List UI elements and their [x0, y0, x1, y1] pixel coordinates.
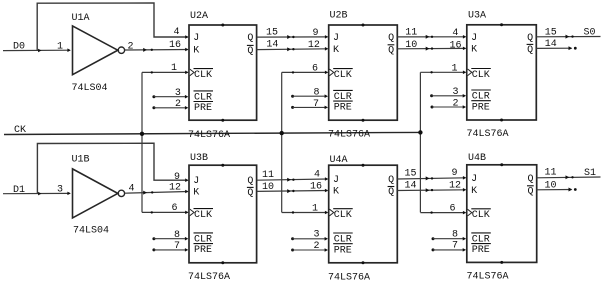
svg-text:Q: Q: [528, 174, 534, 185]
svg-text:12: 12: [169, 182, 181, 193]
U2A bottom-edge mark: [221, 119, 224, 122]
U4B top-edge mark: [500, 163, 503, 166]
svg-text:8: 8: [174, 230, 180, 241]
svg-text:10: 10: [262, 182, 274, 193]
wire CLK feed column 3 vertical: [419, 72, 421, 212]
wire U2A Q to U2B J: [257, 36, 328, 38]
svg-text:9: 9: [174, 172, 180, 183]
svg-text:K: K: [471, 186, 477, 197]
svg-text:S0: S0: [584, 28, 596, 39]
U2B top-edge mark: [362, 24, 365, 27]
svg-text:Q: Q: [247, 188, 253, 199]
svg-text:CLK: CLK: [334, 70, 352, 81]
inverter U1B: [73, 169, 118, 218]
wire U4A CLR stub: [291, 237, 328, 241]
svg-text:PRE: PRE: [472, 245, 490, 256]
svg-text:Q: Q: [528, 186, 534, 197]
wire U2B CLK: [282, 71, 328, 73]
svg-text:11: 11: [262, 170, 274, 181]
JK flip-flop U4B body: [467, 165, 537, 263]
svg-text:K: K: [193, 45, 199, 56]
svg-text:PRE: PRE: [472, 102, 490, 113]
wire D0 bypass to U2A J: [37, 3, 187, 51]
JK flip-flop U2A body: [189, 25, 257, 120]
svg-text:74LS76A: 74LS76A: [188, 130, 230, 141]
svg-text:PRE: PRE: [194, 245, 212, 256]
svg-text:K: K: [333, 45, 339, 56]
svg-text:74LS76A: 74LS76A: [328, 130, 370, 141]
svg-text:J: J: [193, 33, 199, 44]
svg-text:15: 15: [545, 27, 557, 38]
wire U4B PRE stub: [432, 248, 467, 252]
U4B clock wedge: [468, 209, 472, 216]
svg-text:74LS04: 74LS04: [72, 83, 108, 94]
svg-text:1: 1: [451, 63, 457, 74]
wire U4A Qbar to U4B K: [397, 189, 465, 192]
wire U2A CLK: [142, 71, 188, 73]
wire U3B CLK: [142, 211, 188, 213]
svg-text:J: J: [193, 176, 199, 187]
svg-text:U1B: U1B: [72, 155, 90, 166]
svg-text:1: 1: [171, 63, 177, 74]
svg-text:U3A: U3A: [468, 10, 486, 21]
svg-text:K: K: [333, 187, 339, 198]
wire U3B PRE stub: [152, 248, 188, 252]
junction CK column 3: [418, 130, 422, 134]
svg-text:2: 2: [452, 98, 458, 109]
wire U2A PRE stub: [152, 106, 188, 110]
U4B bottom-edge mark: [500, 261, 503, 264]
svg-text:U2B: U2B: [330, 10, 348, 21]
svg-text:11: 11: [544, 168, 556, 179]
svg-text:6: 6: [312, 64, 318, 75]
svg-text:74LS76A: 74LS76A: [467, 271, 509, 282]
U3B bottom-edge mark: [221, 261, 224, 264]
wire U4A PRE stub: [291, 248, 328, 252]
svg-text:CLK: CLK: [334, 210, 352, 221]
svg-text:J: J: [471, 33, 477, 44]
U2B bottom-edge mark: [362, 119, 365, 122]
svg-text:U1A: U1A: [72, 13, 90, 24]
wire U3B Q to U4A J: [257, 179, 328, 180]
U3A clock wedge: [468, 69, 472, 76]
svg-text:10: 10: [405, 40, 417, 51]
svg-text:J: J: [333, 33, 339, 44]
U4A top-edge mark: [362, 164, 365, 167]
svg-text:U2A: U2A: [190, 11, 208, 22]
svg-text:3: 3: [175, 88, 181, 99]
wire U2B Q to U3A J: [397, 36, 465, 38]
wire U1B output to U3B K: [125, 192, 188, 194]
svg-text:16: 16: [449, 41, 461, 52]
svg-text:3: 3: [313, 230, 319, 241]
svg-text:16: 16: [310, 181, 322, 192]
JK flip-flop U4A body: [329, 165, 398, 263]
inverter U1A: [73, 26, 118, 75]
wire U2B CLR stub: [291, 94, 328, 98]
svg-text:S1: S1: [584, 168, 596, 179]
wire U2A Qbar to U2B K: [257, 48, 328, 51]
wire U3A CLR stub: [430, 94, 466, 98]
wire U1A output to U2A K: [125, 49, 188, 52]
svg-text:12: 12: [449, 180, 461, 191]
junction CK column 2: [280, 131, 284, 135]
svg-text:Q: Q: [388, 33, 394, 44]
U3A top-edge mark: [500, 23, 503, 26]
svg-text:Q: Q: [388, 45, 394, 56]
svg-text:CLK: CLK: [194, 70, 212, 81]
svg-text:74LS76A: 74LS76A: [328, 272, 370, 283]
svg-text:Q: Q: [247, 176, 253, 187]
svg-text:CLK: CLK: [194, 210, 212, 221]
svg-text:7: 7: [452, 241, 458, 252]
U4A clock wedge: [330, 209, 334, 216]
wire CLK feed column 1 vertical: [141, 72, 143, 212]
wire D1 bypass to U3B J: [37, 143, 187, 194]
svg-text:U4A: U4A: [330, 155, 348, 166]
svg-text:2: 2: [127, 41, 133, 52]
U4A bottom-edge mark: [362, 261, 365, 264]
svg-text:U3B: U3B: [190, 153, 208, 164]
svg-text:16: 16: [169, 40, 181, 51]
svg-text:J: J: [471, 174, 477, 185]
svg-text:15: 15: [266, 28, 278, 39]
svg-text:4: 4: [173, 27, 179, 38]
svg-text:PRE: PRE: [334, 103, 352, 114]
svg-text:1: 1: [312, 203, 318, 214]
svg-text:Q: Q: [527, 33, 533, 44]
wire U2B PRE stub: [291, 106, 328, 110]
svg-text:6: 6: [449, 203, 455, 214]
svg-text:J: J: [333, 175, 339, 186]
svg-text:7: 7: [174, 241, 180, 252]
wire U4B Qbar unconnected: [536, 189, 571, 191]
svg-text:3: 3: [452, 87, 458, 98]
svg-text:Q: Q: [247, 33, 253, 44]
svg-text:2: 2: [313, 241, 319, 252]
svg-text:9: 9: [451, 168, 457, 179]
wire U4A Q to U4B J: [397, 178, 465, 179]
U3B top-edge mark: [221, 164, 224, 167]
svg-text:14: 14: [266, 39, 278, 50]
U3A bottom-edge mark: [500, 119, 503, 122]
svg-text:12: 12: [308, 40, 320, 51]
svg-text:11: 11: [405, 27, 417, 38]
svg-text:7: 7: [313, 99, 319, 110]
svg-text:4: 4: [452, 28, 458, 39]
U2A clock wedge: [190, 69, 194, 76]
svg-text:1: 1: [57, 42, 63, 53]
svg-text:74LS04: 74LS04: [73, 226, 109, 237]
svg-text:Q: Q: [388, 187, 394, 198]
svg-text:CLK: CLK: [472, 210, 490, 221]
wire U4B CLR stub: [432, 237, 467, 241]
svg-text:PRE: PRE: [334, 245, 352, 256]
U3B clock wedge: [190, 209, 194, 216]
svg-text:Q: Q: [527, 45, 533, 56]
wire U3A Qbar unconnected: [536, 47, 571, 49]
JK flip-flop U3B body: [189, 165, 257, 263]
wire U2A CLR stub: [152, 95, 188, 99]
JK flip-flop U2B body: [329, 25, 398, 120]
wire U3A PRE stub: [431, 105, 467, 109]
svg-text:4: 4: [314, 170, 320, 181]
wire U4B CLK: [420, 212, 465, 214]
svg-text:U4B: U4B: [468, 153, 486, 164]
svg-text:74LS76A: 74LS76A: [188, 272, 230, 283]
wire U3A Q to S0: [536, 36, 600, 38]
JK flip-flop U3A body: [467, 25, 537, 120]
svg-text:14: 14: [404, 181, 416, 192]
svg-text:74LS76A: 74LS76A: [467, 129, 509, 140]
wire U3B Qbar to U4A K: [257, 190, 328, 193]
svg-text:8: 8: [313, 88, 319, 99]
wire U2B Qbar to U3A K: [397, 47, 465, 49]
wire CLK feed column 2 vertical: [281, 72, 283, 212]
svg-text:K: K: [193, 187, 199, 198]
wire U3A CLK: [420, 71, 465, 73]
svg-text:8: 8: [452, 229, 458, 240]
U2A top-edge mark: [221, 24, 224, 27]
svg-text:Q: Q: [247, 46, 253, 57]
junction CK column 1: [140, 132, 144, 136]
svg-text:CLK: CLK: [472, 70, 490, 81]
svg-text:D1: D1: [13, 185, 25, 196]
U2B clock wedge: [330, 69, 334, 76]
wire U3B CLR stub: [152, 237, 188, 241]
wire U4A CLK: [282, 212, 328, 214]
wire D0 input: [3, 49, 70, 51]
svg-text:14: 14: [545, 39, 557, 50]
svg-text:3: 3: [57, 184, 63, 195]
svg-text:Q: Q: [388, 175, 394, 186]
svg-text:PRE: PRE: [194, 103, 212, 114]
wire CK bus: [4, 132, 420, 134]
svg-text:15: 15: [404, 169, 416, 180]
svg-text:2: 2: [175, 99, 181, 110]
svg-text:6: 6: [171, 203, 177, 214]
svg-text:10: 10: [544, 180, 556, 191]
svg-text:9: 9: [312, 28, 318, 39]
wire U4B Q to S1: [536, 176, 600, 179]
wire D1 input: [3, 192, 70, 194]
svg-text:K: K: [471, 44, 477, 55]
